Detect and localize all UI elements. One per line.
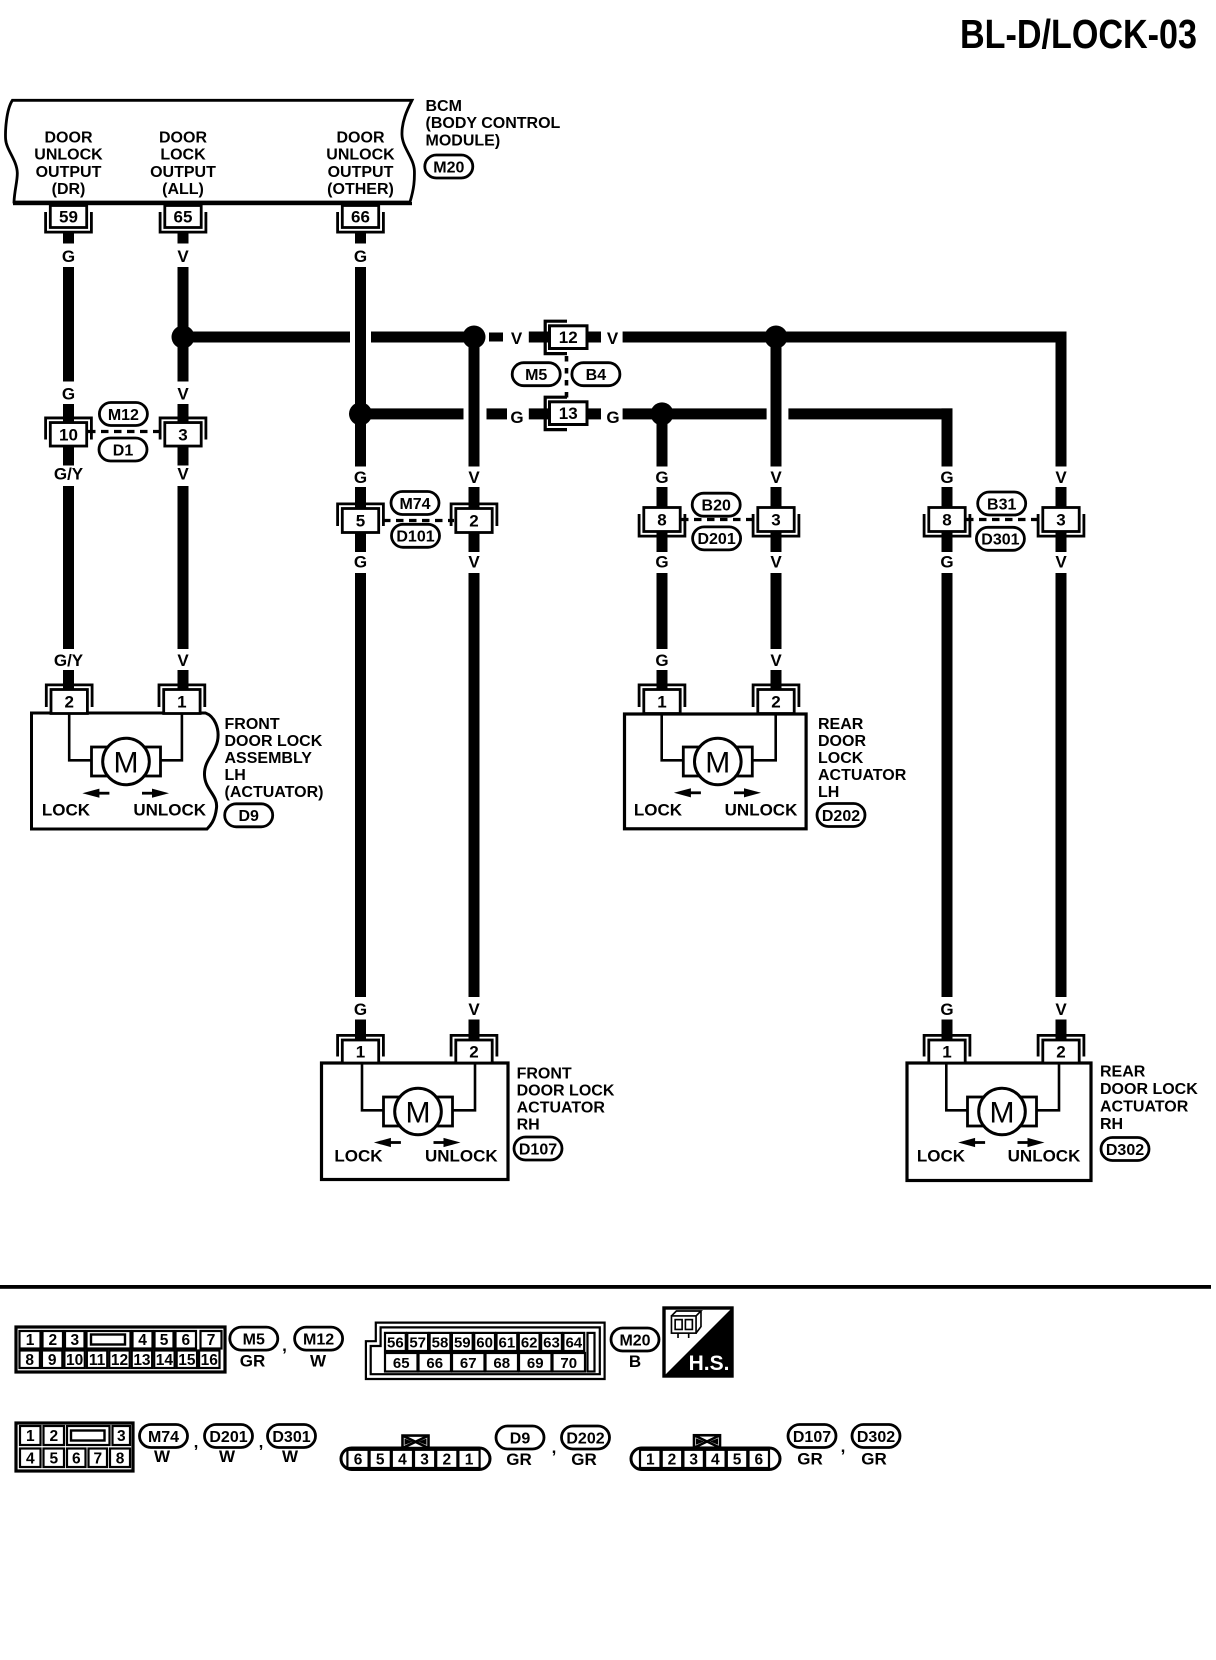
svg-text:LOCK: LOCK bbox=[334, 1147, 383, 1166]
svg-text:D107: D107 bbox=[519, 1141, 557, 1158]
svg-text:70: 70 bbox=[560, 1355, 577, 1372]
svg-text:3: 3 bbox=[117, 1428, 126, 1445]
svg-text:W: W bbox=[154, 1447, 171, 1466]
svg-text:D202: D202 bbox=[566, 1430, 604, 1447]
svg-text:ACTUATOR: ACTUATOR bbox=[1100, 1099, 1189, 1116]
svg-text:V: V bbox=[770, 553, 782, 572]
svg-text:GR: GR bbox=[861, 1450, 887, 1469]
svg-text:V: V bbox=[511, 329, 523, 348]
svg-text:DOOR LOCK: DOOR LOCK bbox=[517, 1083, 615, 1100]
svg-text:,: , bbox=[282, 1336, 287, 1355]
svg-text:G: G bbox=[354, 1000, 367, 1019]
svg-text:6: 6 bbox=[72, 1450, 81, 1467]
svg-text:1: 1 bbox=[26, 1428, 35, 1445]
svg-text:M20: M20 bbox=[433, 159, 464, 176]
svg-text:5: 5 bbox=[356, 512, 365, 531]
svg-text:3: 3 bbox=[70, 1332, 79, 1349]
svg-text:,: , bbox=[259, 1433, 264, 1452]
svg-text:OUTPUT: OUTPUT bbox=[150, 164, 216, 181]
svg-text:G: G bbox=[655, 468, 668, 487]
svg-text:V: V bbox=[177, 247, 189, 266]
svg-text:5: 5 bbox=[733, 1451, 742, 1468]
svg-text:D302: D302 bbox=[857, 1429, 895, 1446]
svg-text:65: 65 bbox=[174, 208, 193, 227]
svg-text:D101: D101 bbox=[396, 529, 434, 546]
svg-text:3: 3 bbox=[771, 511, 780, 530]
svg-text:,: , bbox=[841, 1437, 846, 1456]
svg-text:69: 69 bbox=[527, 1355, 544, 1372]
svg-text:V: V bbox=[1055, 553, 1067, 572]
svg-text:66: 66 bbox=[426, 1355, 443, 1372]
svg-text:G: G bbox=[940, 553, 953, 572]
svg-text:UNLOCK: UNLOCK bbox=[326, 147, 395, 164]
svg-text:1: 1 bbox=[177, 693, 186, 712]
svg-text:V: V bbox=[177, 651, 189, 670]
svg-text:D301: D301 bbox=[272, 1429, 310, 1446]
svg-text:G: G bbox=[62, 247, 75, 266]
svg-text:3: 3 bbox=[178, 425, 187, 444]
svg-text:B31: B31 bbox=[987, 496, 1016, 513]
svg-text:M74: M74 bbox=[148, 1429, 179, 1446]
svg-text:59: 59 bbox=[454, 1334, 471, 1351]
svg-text:D201: D201 bbox=[697, 531, 735, 548]
svg-text:9: 9 bbox=[48, 1352, 57, 1369]
svg-text:B20: B20 bbox=[702, 498, 731, 515]
svg-text:62: 62 bbox=[521, 1334, 538, 1351]
svg-text:G/Y: G/Y bbox=[54, 465, 84, 484]
svg-text:2: 2 bbox=[49, 1428, 58, 1445]
svg-text:V: V bbox=[1055, 1000, 1067, 1019]
svg-text:M: M bbox=[406, 1097, 431, 1130]
svg-text:14: 14 bbox=[156, 1352, 174, 1369]
svg-text:V: V bbox=[177, 465, 189, 484]
svg-text:B4: B4 bbox=[586, 367, 607, 384]
svg-text:2: 2 bbox=[64, 693, 73, 712]
svg-text:8: 8 bbox=[942, 511, 951, 530]
svg-text:16: 16 bbox=[201, 1352, 219, 1369]
svg-text:7: 7 bbox=[93, 1450, 102, 1467]
svg-text:V: V bbox=[468, 553, 480, 572]
svg-text:1: 1 bbox=[26, 1332, 35, 1349]
svg-text:FRONT: FRONT bbox=[517, 1066, 572, 1083]
svg-text:G: G bbox=[354, 247, 367, 266]
svg-text:11: 11 bbox=[89, 1352, 106, 1369]
svg-text:G: G bbox=[354, 553, 367, 572]
svg-text:61: 61 bbox=[499, 1334, 516, 1351]
svg-text:LOCK: LOCK bbox=[634, 801, 683, 820]
svg-text:2: 2 bbox=[48, 1332, 57, 1349]
svg-text:66: 66 bbox=[351, 208, 370, 227]
svg-text:(ACTUATOR): (ACTUATOR) bbox=[225, 784, 324, 801]
svg-text:2: 2 bbox=[1056, 1043, 1065, 1062]
svg-text:G: G bbox=[354, 468, 367, 487]
svg-text:M: M bbox=[114, 747, 139, 780]
svg-text:OUTPUT: OUTPUT bbox=[328, 164, 394, 181]
svg-text:8: 8 bbox=[116, 1450, 125, 1467]
svg-text:D1: D1 bbox=[113, 442, 134, 459]
svg-text:UNLOCK: UNLOCK bbox=[133, 801, 206, 820]
svg-text:13: 13 bbox=[559, 404, 578, 423]
svg-text:BCM: BCM bbox=[426, 98, 462, 115]
svg-text:10: 10 bbox=[66, 1352, 83, 1369]
svg-text:2: 2 bbox=[469, 1043, 478, 1062]
svg-text:UNLOCK: UNLOCK bbox=[425, 1147, 498, 1166]
svg-text:M20: M20 bbox=[619, 1332, 650, 1349]
svg-text:GR: GR bbox=[240, 1352, 266, 1371]
svg-text:W: W bbox=[219, 1447, 236, 1466]
svg-text:1: 1 bbox=[356, 1043, 365, 1062]
svg-text:65: 65 bbox=[393, 1355, 410, 1372]
svg-text:5: 5 bbox=[376, 1451, 385, 1468]
svg-text:DOOR: DOOR bbox=[159, 130, 207, 147]
svg-text:BL-D/LOCK-03: BL-D/LOCK-03 bbox=[960, 11, 1197, 57]
svg-text:12: 12 bbox=[559, 328, 578, 347]
svg-text:W: W bbox=[282, 1447, 299, 1466]
svg-text:D201: D201 bbox=[209, 1429, 247, 1446]
svg-text:3: 3 bbox=[1056, 511, 1065, 530]
svg-text:13: 13 bbox=[133, 1352, 151, 1369]
svg-text:2: 2 bbox=[771, 693, 780, 712]
svg-text:UNLOCK: UNLOCK bbox=[725, 801, 798, 820]
svg-text:V: V bbox=[607, 329, 619, 348]
svg-text:58: 58 bbox=[432, 1334, 449, 1351]
svg-text:RH: RH bbox=[1100, 1116, 1123, 1133]
svg-text:68: 68 bbox=[493, 1355, 510, 1372]
svg-text:4: 4 bbox=[398, 1451, 407, 1468]
svg-text:W: W bbox=[310, 1352, 327, 1371]
svg-text:M5: M5 bbox=[243, 1331, 265, 1348]
svg-text:LOCK: LOCK bbox=[160, 147, 206, 164]
svg-text:7: 7 bbox=[207, 1332, 216, 1349]
svg-text:V: V bbox=[468, 1000, 480, 1019]
svg-text:V: V bbox=[468, 468, 480, 487]
svg-text:UNLOCK: UNLOCK bbox=[1008, 1147, 1081, 1166]
svg-text:LOCK: LOCK bbox=[818, 750, 864, 767]
svg-text:4: 4 bbox=[138, 1332, 147, 1349]
svg-text:2: 2 bbox=[469, 512, 478, 531]
svg-text:(OTHER): (OTHER) bbox=[327, 181, 394, 198]
svg-text:4: 4 bbox=[711, 1451, 720, 1468]
svg-text:67: 67 bbox=[460, 1355, 477, 1372]
svg-text:(ALL): (ALL) bbox=[162, 181, 204, 198]
svg-text:G: G bbox=[940, 468, 953, 487]
svg-text:GR: GR bbox=[797, 1450, 823, 1469]
svg-text:,: , bbox=[552, 1438, 557, 1457]
svg-text:ACTUATOR: ACTUATOR bbox=[517, 1100, 606, 1117]
svg-text:(DR): (DR) bbox=[52, 181, 86, 198]
svg-text:8: 8 bbox=[25, 1352, 34, 1369]
svg-text:REAR: REAR bbox=[818, 716, 864, 733]
svg-text:12: 12 bbox=[111, 1352, 128, 1369]
svg-text:V: V bbox=[177, 385, 189, 404]
svg-text:G: G bbox=[940, 1000, 953, 1019]
svg-text:M5: M5 bbox=[525, 367, 547, 384]
svg-text:60: 60 bbox=[476, 1334, 493, 1351]
svg-text:M: M bbox=[705, 747, 730, 780]
svg-text:G: G bbox=[510, 408, 523, 427]
svg-text:M74: M74 bbox=[399, 496, 430, 513]
svg-text:G: G bbox=[606, 408, 619, 427]
svg-text:(BODY CONTROL: (BODY CONTROL bbox=[426, 115, 561, 132]
svg-text:V: V bbox=[770, 468, 782, 487]
svg-text:D202: D202 bbox=[822, 808, 860, 825]
svg-text:DOOR: DOOR bbox=[818, 733, 866, 750]
svg-text:V: V bbox=[770, 651, 782, 670]
svg-text:D301: D301 bbox=[981, 532, 1019, 549]
svg-text:6: 6 bbox=[354, 1451, 363, 1468]
svg-text:M12: M12 bbox=[108, 407, 139, 424]
svg-text:15: 15 bbox=[178, 1352, 196, 1369]
svg-text:GR: GR bbox=[506, 1450, 532, 1469]
svg-text:3: 3 bbox=[420, 1451, 429, 1468]
svg-text:M: M bbox=[990, 1097, 1015, 1130]
svg-text:DOOR LOCK: DOOR LOCK bbox=[225, 733, 323, 750]
svg-text:1: 1 bbox=[657, 693, 666, 712]
svg-text:LOCK: LOCK bbox=[42, 801, 91, 820]
svg-text:MODULE): MODULE) bbox=[426, 132, 501, 149]
svg-text:G/Y: G/Y bbox=[54, 651, 84, 670]
svg-text:1: 1 bbox=[646, 1451, 655, 1468]
svg-text:2: 2 bbox=[668, 1451, 677, 1468]
svg-text:DOOR: DOOR bbox=[337, 130, 385, 147]
svg-text:D9: D9 bbox=[510, 1430, 531, 1447]
svg-text:5: 5 bbox=[160, 1332, 169, 1349]
svg-text:G: G bbox=[655, 651, 668, 670]
svg-text:3: 3 bbox=[689, 1451, 698, 1468]
svg-text:B: B bbox=[629, 1352, 641, 1371]
svg-text:10: 10 bbox=[59, 425, 78, 444]
svg-text:6: 6 bbox=[181, 1332, 190, 1349]
svg-text:59: 59 bbox=[59, 208, 78, 227]
svg-text:M12: M12 bbox=[303, 1331, 334, 1348]
svg-text:D302: D302 bbox=[1106, 1142, 1144, 1159]
svg-text:64: 64 bbox=[565, 1334, 582, 1351]
svg-text:GR: GR bbox=[571, 1450, 597, 1469]
svg-text:V: V bbox=[1055, 468, 1067, 487]
svg-text:1: 1 bbox=[942, 1043, 951, 1062]
svg-text:G: G bbox=[655, 553, 668, 572]
svg-text:D9: D9 bbox=[238, 808, 259, 825]
svg-text:REAR: REAR bbox=[1100, 1064, 1146, 1081]
svg-text:ACTUATOR: ACTUATOR bbox=[818, 767, 907, 784]
svg-text:DOOR LOCK: DOOR LOCK bbox=[1100, 1081, 1198, 1098]
svg-text:2: 2 bbox=[442, 1451, 451, 1468]
svg-text:8: 8 bbox=[657, 511, 666, 530]
svg-text:DOOR: DOOR bbox=[45, 130, 93, 147]
svg-text:LOCK: LOCK bbox=[917, 1147, 966, 1166]
svg-text:H.S.: H.S. bbox=[689, 1352, 730, 1375]
svg-text:LH: LH bbox=[818, 784, 839, 801]
svg-text:LH: LH bbox=[225, 767, 246, 784]
svg-text:OUTPUT: OUTPUT bbox=[36, 164, 102, 181]
svg-text:ASSEMBLY: ASSEMBLY bbox=[225, 750, 313, 767]
svg-text:RH: RH bbox=[517, 1117, 540, 1134]
svg-text:D107: D107 bbox=[793, 1429, 831, 1446]
svg-text:63: 63 bbox=[543, 1334, 560, 1351]
svg-text:,: , bbox=[194, 1433, 199, 1452]
svg-text:56: 56 bbox=[387, 1334, 404, 1351]
svg-text:UNLOCK: UNLOCK bbox=[34, 147, 103, 164]
svg-text:G: G bbox=[62, 385, 75, 404]
svg-text:57: 57 bbox=[409, 1334, 426, 1351]
svg-text:5: 5 bbox=[49, 1450, 58, 1467]
svg-text:1: 1 bbox=[465, 1451, 474, 1468]
svg-text:6: 6 bbox=[754, 1451, 763, 1468]
svg-text:FRONT: FRONT bbox=[225, 716, 280, 733]
svg-text:4: 4 bbox=[26, 1450, 35, 1467]
